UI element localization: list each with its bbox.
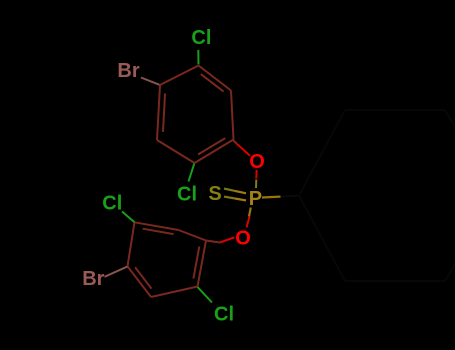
bond C4-Cl (top ring, bottom chlorine): [189, 164, 195, 182]
double bond S=P upper line: [224, 189, 235, 191]
wire ring C edge C2c-C3c: [345, 109, 445, 111]
wire ring B inner double bond C1'-C2': [143, 229, 174, 234]
wire ring A edge C3-C4: [195, 140, 234, 164]
wire ring C edge C3c-C4c: [445, 110, 455, 196]
wire ring B edge C2'-C3': [179, 230, 207, 241]
bond P-C ipso (carbon half dark): [281, 196, 300, 197]
bond P-O (lower, phosphorus half olive): [249, 208, 251, 217]
svg-text:Br: Br: [117, 60, 139, 82]
wire ring A edge C2-C3: [231, 91, 234, 140]
wire ring B inner double bond C3'-C4': [193, 246, 199, 278]
svg-text:Cl: Cl: [102, 192, 122, 214]
wire ring A edge C1-C2: [199, 66, 232, 91]
svg-text:Cl: Cl: [214, 304, 234, 326]
double bond S=P lower line (P half, golden): [235, 199, 246, 201]
svg-text:Br: Br: [82, 268, 104, 290]
svg-text:O: O: [249, 151, 265, 173]
wire ring A edge C5-C6: [157, 85, 160, 140]
benzene ring B (bottom, 4-bromo-2,5-dichlorophenyl): [128, 222, 207, 297]
bond O-C3' (lower ester oxygen to ring B): [220, 237, 235, 242]
wire ring B edge C6'-C1': [128, 222, 135, 266]
bond C6'-Br (ring B bromine): [105, 267, 128, 277]
double bond S=P upper line (P half, golden): [235, 191, 246, 193]
bond O-P (upper, oxygen half red): [255, 170, 257, 179]
svg-text:Cl: Cl: [177, 184, 197, 206]
svg-text:O: O: [235, 227, 251, 249]
bond P-O (lower, oxygen half red): [247, 217, 250, 228]
wire ring B edge C3'-C4': [198, 241, 207, 287]
wire ring C edge C6c-ipso: [299, 196, 345, 282]
bond C4'-Cl (ring B bottom chlorine): [198, 287, 213, 303]
bond P-C ipso (phosphorus half olive): [262, 196, 281, 199]
bond C3-O (top ester oxygen): [237, 144, 250, 156]
bond C6-Br (top ring bromine): [141, 78, 160, 85]
wire ring C edge ipso-C2c: [299, 110, 345, 196]
wire ring B edge C1'-C2': [135, 222, 179, 230]
wire ring A inner double bond C3-C4: [198, 138, 225, 154]
benzene ring C (phenyl on phosphorus, near-black): [299, 110, 455, 281]
wire ring A inner double bond C5-C6: [163, 93, 165, 131]
benzene ring A (top, 4-bromo-2,5-dichlorophenyl): [157, 66, 234, 164]
bond C3-O carbon half (dark maroon): [233, 140, 237, 144]
wire ring C edge C5c-C6c: [345, 280, 445, 282]
wire ring B inner double bond C5'-C6': [135, 267, 151, 289]
bond O-C3p carbon half (dark maroon): [206, 241, 220, 243]
wire ring B edge C5'-C6': [128, 266, 152, 297]
wire ring C edge C4c-C5c: [445, 196, 455, 282]
svg-text:S: S: [208, 183, 221, 205]
double bond S=P lower line: [224, 197, 235, 199]
svg-text:P: P: [249, 188, 262, 210]
wire ring A edge C4-C5: [157, 140, 195, 163]
wire ring A inner double bond C1-C2: [201, 74, 224, 92]
svg-text:Cl: Cl: [191, 27, 211, 49]
wire ring B edge C4'-C5': [151, 287, 198, 298]
wire ring A edge C6-C1: [160, 66, 199, 86]
bond C1-Cl (top ring, top chlorine): [197, 50, 199, 65]
bond C1'-Cl (ring B top chlorine): [122, 212, 135, 223]
bond O-P (upper, phosphorus half olive): [255, 180, 257, 189]
